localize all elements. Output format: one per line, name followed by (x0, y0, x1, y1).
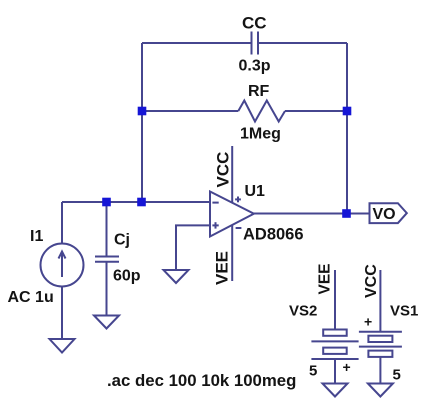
svg-text:1Meg: 1Meg (240, 126, 281, 143)
svg-text:VEE: VEE (213, 251, 232, 285)
ground (VS1) (368, 384, 393, 397)
wire main input net (62, 201, 210, 203)
op-amp VCC power pin (231, 146, 233, 203)
node junction (Cj / input net) (102, 198, 111, 207)
wire RF branch right (285, 110, 347, 112)
svg-text:5: 5 (393, 367, 401, 384)
resistor RF (238, 101, 285, 122)
op-amp VEE minus mark (236, 227, 242, 229)
op-amp VCC plus mark (235, 197, 241, 203)
ground (Cj) (94, 316, 119, 329)
svg-text:VEE: VEE (317, 263, 334, 294)
current source I1 (41, 244, 84, 287)
wire RF branch left (142, 110, 238, 112)
svg-text:I1: I1 (30, 228, 43, 245)
wire output to VO flag (347, 213, 370, 215)
svg-text:VO: VO (373, 206, 396, 223)
svg-text:+: + (343, 359, 351, 375)
wire I1 top stub (61, 202, 63, 244)
svg-text:5: 5 (309, 363, 317, 380)
svg-text:VCC: VCC (214, 152, 233, 188)
node junction (output / feedback) (342, 209, 351, 218)
battery VS1 (VCC supply) (359, 270, 402, 384)
node junction (feedback left / input net) (137, 198, 146, 207)
svg-text:.ac dec 100 10k 100meg: .ac dec 100 10k 100meg (107, 371, 296, 390)
svg-text:VCC: VCC (363, 264, 380, 298)
capacitor CC (252, 32, 259, 55)
ground (VS2) (323, 384, 348, 397)
op-amp VEE power pin (231, 225, 233, 281)
wire CC branch right (258, 42, 347, 44)
wire top-right vertical (feedback right branch) (346, 43, 348, 214)
svg-text:0.3p: 0.3p (239, 58, 271, 75)
op-amp U1 triangle (210, 192, 254, 237)
svg-text:RF: RF (248, 83, 270, 100)
VO output flag (370, 203, 407, 223)
svg-text:+: + (364, 314, 372, 330)
battery VS2 (VEE supply) (311, 270, 358, 384)
svg-text:60p: 60p (113, 268, 141, 285)
op-amp plus input mark (212, 222, 218, 228)
svg-text:VS1: VS1 (390, 303, 418, 320)
wire noninverting input to ground (176, 225, 210, 270)
svg-text:Cj: Cj (114, 232, 130, 249)
ground (op-amp + input) (164, 270, 189, 283)
svg-text:AC 1u: AC 1u (8, 289, 54, 306)
ground (I1) (50, 339, 75, 353)
node junction (feedback left / RF) (138, 107, 147, 116)
wire CC branch left (142, 42, 252, 44)
node junction (feedback right / RF) (343, 107, 352, 116)
wire Cj bottom stub (106, 262, 108, 316)
svg-text:AD8066: AD8066 (243, 226, 304, 244)
wire I1 bottom stub (61, 287, 63, 340)
op-amp minus input mark (212, 202, 218, 204)
svg-text:VS2: VS2 (289, 303, 317, 320)
wire Cj top stub (106, 202, 108, 257)
wire top-left vertical (feedback left branch) (141, 43, 143, 202)
svg-text:U1: U1 (245, 183, 266, 200)
svg-text:CC: CC (242, 14, 267, 33)
wire output (254, 213, 347, 215)
capacitor Cj (95, 257, 119, 262)
